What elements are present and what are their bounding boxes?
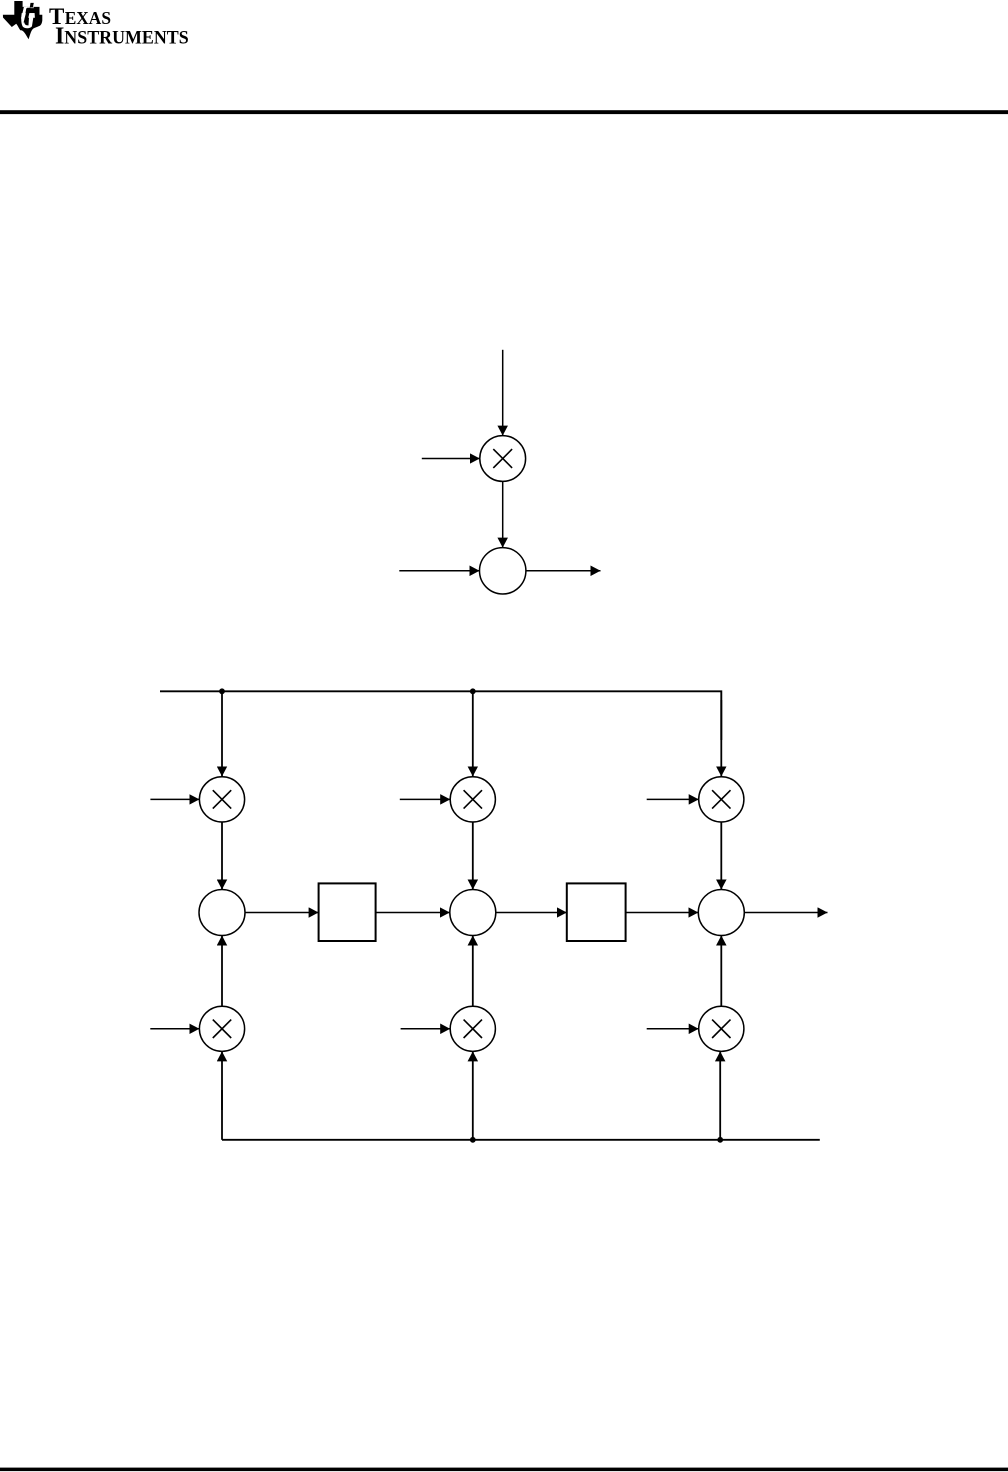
summer S1: [199, 890, 245, 936]
white t crossbar: [21, 13, 35, 18]
wire: bottom bus: [222, 1139, 820, 1141]
wire: Z2 to S3: [626, 912, 699, 914]
wire: S3 output arrow: [744, 912, 827, 914]
wire: bus up into B1: [221, 1090, 223, 1140]
TEXAS INSTRUMENTS wordmark: [49, 4, 189, 49]
multiplier B1: [199, 1006, 244, 1051]
TI logo: Texas map bug: [3, 1, 42, 39]
wire: S1 to delay Z1: [245, 912, 319, 914]
node: top bus junction 2: [470, 688, 476, 694]
wire: coeff input arrow into A1: [150, 798, 199, 800]
black i stem: [24, 8, 31, 23]
black i dot: [30, 3, 34, 8]
multiplier A3: [699, 777, 744, 822]
wire: S0 output arrow: [526, 570, 601, 572]
wire: bus up into B3: [719, 1051, 721, 1139]
summer S3: [698, 890, 744, 936]
svg-text:NSTRUMENTS: NSTRUMENTS: [64, 27, 188, 48]
wire: top bus: [160, 691, 721, 740]
summer S2: [450, 890, 496, 936]
wire: coeff input arrow into A2: [400, 798, 450, 800]
wire: bus down to multiplier A2: [472, 691, 474, 776]
wire: coeff input arrow into B1: [150, 1028, 199, 1030]
top rule: [0, 110, 1008, 114]
delay Z2: [567, 883, 626, 941]
multiplier B2: [450, 1006, 495, 1051]
wire: multiplier B3 up into S3: [720, 936, 722, 1007]
node: bottom bus junction 1: [470, 1137, 476, 1143]
white t foot: [21, 17, 31, 28]
multiplier A2: [450, 777, 495, 822]
delay Z1: [319, 883, 376, 941]
svg-text:EXAS: EXAS: [65, 8, 111, 28]
white t stem: [21, 7, 26, 19]
multiplier A1: [199, 777, 244, 822]
wire: coeff input arrow into B3: [647, 1028, 699, 1030]
wire: coeff input arrow into B2: [401, 1028, 451, 1030]
wire: multiplier B1 up into S1: [221, 936, 223, 1007]
summer S0: [480, 548, 526, 594]
wire: input arrow into U0: [422, 458, 480, 460]
multiplier U0: [480, 436, 526, 482]
wire: A2 down into summer S2: [472, 822, 474, 890]
wire: bus down to multiplier A1: [221, 691, 223, 776]
node: top bus junction 1: [219, 688, 225, 694]
wire: Z1 to S2: [376, 912, 450, 914]
wire: bus up into B2: [472, 1051, 474, 1139]
white column right of i stem: [28, 13, 34, 27]
bottom rule: [0, 1468, 1008, 1472]
wire: vertical into multiplier U0: [502, 350, 504, 436]
node: bottom bus junction 2: [717, 1137, 723, 1143]
multiplier B3: [699, 1006, 744, 1051]
wire: coeff input arrow into A3: [647, 798, 699, 800]
wire: input arrow into S0: [399, 570, 479, 572]
svg-text:I: I: [55, 23, 64, 49]
wire: S2 to delay Z2: [496, 912, 567, 914]
wire: A1 down into summer S1: [221, 822, 223, 890]
white gap under i dot: [25, 7, 30, 9]
wire: U0 output down into summer S0: [502, 481, 504, 547]
wire: A3 down into summer S3: [720, 822, 722, 890]
wire: multiplier B2 up into S2: [472, 936, 474, 1007]
